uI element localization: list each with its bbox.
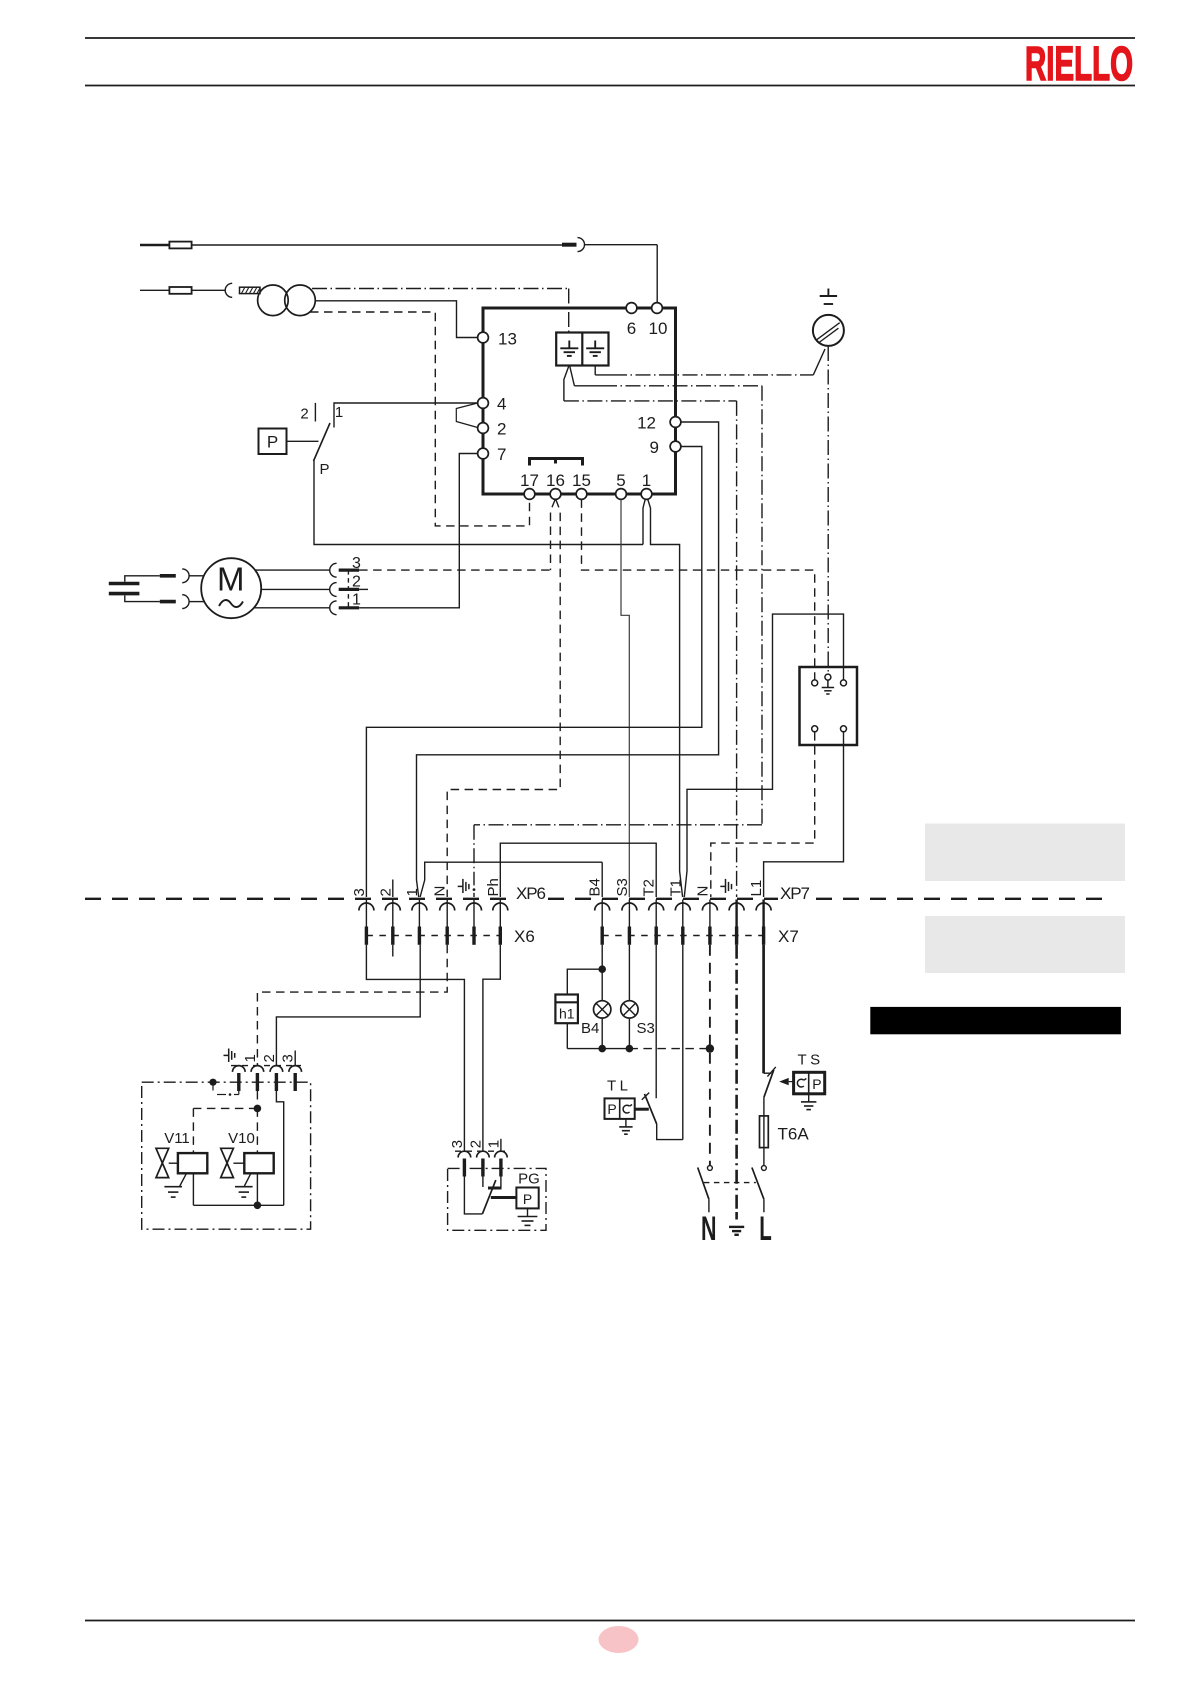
svg-text:7: 7	[497, 445, 506, 464]
TL earth	[625, 1119, 627, 1127]
capacitor wires	[125, 576, 160, 582]
svg-text:P: P	[319, 461, 329, 478]
motor tilde	[219, 600, 243, 607]
svg-text:PG: PG	[518, 1171, 540, 1188]
svg-text:Ph: Ph	[485, 878, 502, 896]
XP7 pin wires to X7	[602, 900, 763, 927]
XP6-1 right fork to XP7 B4	[420, 862, 602, 897]
svg-text:P: P	[812, 1076, 821, 1092]
PG fixed contact	[488, 1187, 502, 1190]
probe plug hook	[578, 238, 585, 252]
svg-text:10: 10	[649, 319, 668, 338]
switch gang link dashed	[704, 1182, 756, 1184]
svg-text:2: 2	[497, 420, 506, 439]
earth symbol right cell	[586, 341, 604, 356]
svg-text:TL: TL	[607, 1078, 632, 1095]
filter terminal top mid	[825, 674, 831, 680]
svg-text:13: 13	[498, 330, 517, 349]
XP6 pin N	[440, 903, 455, 910]
svg-text:B4: B4	[581, 1020, 599, 1037]
L pole terminal circle	[762, 1166, 767, 1171]
filter terminal top right	[841, 680, 847, 686]
earth symbol left cell	[560, 341, 578, 356]
lamp S3	[621, 1001, 638, 1018]
RC filter box	[800, 667, 858, 745]
page number blur	[599, 1626, 639, 1653]
pin 6	[626, 303, 637, 314]
svg-text:2: 2	[467, 1140, 484, 1148]
valve plug pin 1	[251, 1066, 264, 1072]
TL blade lead to T1	[657, 1124, 683, 1140]
HV hatched cable	[240, 287, 261, 293]
wire XP7 T1 down	[682, 945, 684, 1140]
valve pin2 net down	[276, 1091, 283, 1205]
svg-text:2: 2	[377, 888, 394, 896]
svg-text:XP7: XP7	[780, 884, 810, 903]
wire XP7 B4 down with junction	[601, 945, 603, 1001]
solenoid V10 valve body	[221, 1148, 234, 1177]
svg-text:N: N	[694, 886, 711, 897]
svg-text:V11: V11	[164, 1130, 190, 1147]
svg-text:1: 1	[485, 1140, 502, 1148]
XP6 pin wires to X6	[366, 900, 500, 927]
svg-text:M: M	[217, 561, 245, 598]
XP6 pin Ph	[493, 903, 508, 910]
PG pin1 lead	[500, 1177, 502, 1189]
shield bond squiggle	[209, 1079, 216, 1086]
wire screw terminal to filter earth	[827, 346, 829, 674]
wire transformer to pin 13	[315, 301, 477, 338]
TS contact tick	[767, 1067, 775, 1077]
X7 terminal strip	[602, 935, 763, 937]
wire filter bottom right to XP7 L1	[764, 732, 844, 897]
wire P box to switch	[287, 440, 319, 442]
pin 7	[478, 448, 489, 459]
solenoid V10 coil	[244, 1153, 273, 1173]
valve plug pin 3	[289, 1066, 302, 1072]
valve plug pin 3 stub	[294, 1051, 296, 1066]
svg-text:15: 15	[572, 471, 591, 490]
svg-text:P: P	[607, 1101, 616, 1117]
TS reset hook symbol	[797, 1079, 804, 1087]
XP7 pin B4	[595, 903, 610, 910]
X6-4 dashed net to valve plug pin 1	[257, 945, 447, 1066]
svg-text:N: N	[432, 886, 449, 897]
svg-text:1: 1	[335, 404, 343, 421]
svg-text:X7: X7	[778, 927, 799, 946]
svg-text:6: 6	[627, 319, 636, 338]
redacted black bar	[870, 1007, 1121, 1034]
PG plug pin 1	[495, 1151, 508, 1157]
valve plug earth label	[224, 1049, 235, 1063]
svg-text:T2: T2	[641, 879, 658, 897]
motor connector divider	[347, 570, 349, 608]
PG plug divider	[455, 1150, 510, 1152]
pin 1 fork left	[643, 499, 645, 544]
pin 10	[652, 303, 663, 314]
TS box	[794, 1072, 825, 1094]
pin 16 fork dashed left	[551, 499, 556, 570]
wire XP7 N dashed down	[709, 945, 711, 1166]
lamp B4	[594, 1001, 611, 1018]
TL actuator link	[635, 1108, 649, 1111]
internal earth double box	[556, 333, 608, 366]
svg-text:1: 1	[404, 888, 421, 896]
PG shield box	[448, 1168, 546, 1230]
jumper pins 4-2	[456, 403, 477, 428]
PG earth	[527, 1208, 529, 1216]
solenoid V11 earth	[180, 1173, 187, 1186]
PG plug pin 2	[477, 1151, 490, 1157]
pin 12 net to XP6-1	[417, 422, 719, 897]
L pole blade	[752, 1168, 764, 1200]
svg-text:S3: S3	[614, 878, 631, 896]
pin 17	[524, 489, 535, 500]
wire XP7 earth dash-dot down	[735, 945, 738, 1212]
motor pin 2 stub	[359, 588, 368, 590]
svg-text:2: 2	[261, 1054, 278, 1062]
XP6-Ph net to XP7 T2	[500, 843, 656, 897]
PG plug pin 3	[458, 1151, 471, 1157]
N pole blade	[698, 1168, 709, 1200]
wire transformer dashed to pin 17	[310, 312, 530, 526]
ignition electrode	[140, 289, 169, 291]
TL blade	[645, 1094, 657, 1124]
redacted note box upper	[925, 824, 1125, 882]
PG actuator link	[491, 1196, 517, 1199]
wire filter top right to XP7 T1	[684, 614, 843, 897]
PG pin2 stub	[482, 1177, 484, 1188]
ionisation probe electrode	[140, 244, 169, 246]
svg-text:V10: V10	[228, 1130, 255, 1147]
svg-text:P: P	[267, 433, 278, 452]
earth symbol above screw terminal	[820, 289, 837, 305]
X6-3 net to valve plug pin 2	[276, 945, 420, 1066]
branch to hour counter h1	[567, 969, 602, 994]
mains earth symbol	[729, 1227, 744, 1235]
svg-text:N: N	[701, 1210, 717, 1248]
earth box right cell to screw terminal	[594, 366, 596, 375]
svg-text:3: 3	[280, 1054, 297, 1062]
redacted note box lower	[925, 916, 1125, 973]
XP7 pin S3	[622, 903, 637, 910]
svg-text:1: 1	[352, 592, 361, 609]
svg-text:17: 17	[520, 471, 539, 490]
TL box	[605, 1098, 635, 1119]
ignition transformer TR primary circle	[258, 285, 289, 316]
svg-text:S3: S3	[637, 1020, 655, 1037]
pin 13	[478, 332, 489, 343]
screw earth terminal circle	[813, 315, 844, 346]
svg-text:P: P	[523, 1191, 532, 1207]
earth box fork left leg to XP7 earth	[564, 366, 569, 401]
contact 2 tick	[314, 403, 316, 422]
pin 1 fork right to XP7 T1	[648, 499, 683, 897]
TL reset hook symbol	[623, 1105, 630, 1113]
control box outline	[483, 308, 676, 494]
svg-text:3: 3	[449, 1140, 466, 1148]
svg-text:1: 1	[242, 1054, 259, 1062]
pin 1	[641, 489, 652, 500]
svg-text:2: 2	[352, 574, 361, 591]
footer rule	[85, 1620, 1135, 1622]
earth box fork right leg to XP6 earth	[570, 366, 575, 386]
XP6 pin 1	[412, 903, 427, 910]
svg-text:2: 2	[300, 406, 308, 423]
wire XP7 S3 down	[628, 945, 630, 1001]
capacitor plug hooks	[182, 569, 189, 583]
valve group shield box	[142, 1082, 311, 1229]
filter earth symbol	[822, 680, 834, 694]
lamp return bus	[566, 1023, 568, 1048]
pin 5	[616, 489, 627, 500]
wire XP7 L1 down to TS	[762, 945, 765, 1073]
X6-2 stub below	[392, 945, 394, 957]
TS fixed contact stub	[764, 1072, 772, 1074]
filter terminal bottom right	[841, 726, 847, 732]
wire filter bottom left dashed to XP7 N	[711, 732, 815, 897]
pin 5 wire to XP7 S3	[621, 499, 629, 897]
svg-text:3: 3	[351, 888, 368, 896]
header rule top	[85, 37, 1135, 39]
XP7 pin E	[729, 903, 744, 910]
svg-text:9: 9	[650, 438, 659, 457]
solenoid V11 coil	[178, 1153, 207, 1173]
svg-text:XP6: XP6	[516, 884, 546, 903]
svg-text:4: 4	[497, 395, 506, 414]
XP7 pin N	[702, 903, 717, 910]
PG switch wiring	[464, 1177, 482, 1214]
TS earth	[808, 1094, 810, 1102]
factory/installer divider dashed line	[85, 898, 1113, 900]
svg-text:T6A: T6A	[778, 1125, 810, 1144]
motor connector pins	[339, 570, 359, 608]
valve plug divider	[231, 1065, 301, 1067]
header rule bottom	[85, 85, 1135, 87]
wire motor pin 1 to pin 7	[359, 454, 478, 608]
pin 4	[478, 398, 489, 409]
PG switch blade	[482, 1180, 495, 1214]
valve pin1 dashed net with junction	[256, 1091, 258, 1108]
svg-text:RIELLO: RIELLO	[1025, 38, 1133, 91]
valve plug pin 2	[270, 1066, 283, 1072]
PG P box	[516, 1188, 538, 1209]
pin 16 fork dashed right to XP6 N	[447, 499, 560, 897]
motor output wires	[255, 569, 330, 571]
svg-text:L1: L1	[748, 880, 765, 897]
XP6 pin 2	[385, 903, 400, 910]
pin 15	[576, 489, 587, 500]
valve return bus	[192, 1173, 194, 1205]
svg-text:h1: h1	[559, 1006, 575, 1022]
wires hooks to motor	[189, 575, 204, 577]
TS blade	[764, 1070, 774, 1098]
TS blade lead to fuse	[763, 1097, 765, 1116]
hour counter h1	[555, 995, 578, 1024]
XP7 pin T1	[675, 903, 690, 910]
valve plug pin E	[233, 1066, 246, 1072]
photocell P box	[259, 429, 287, 455]
svg-text:1: 1	[642, 471, 651, 490]
filter terminal bottom left	[812, 726, 818, 732]
wire transformer shield dash-dot to earth block	[312, 289, 569, 333]
pin 2	[478, 423, 489, 434]
XP6 pin 3	[359, 903, 374, 910]
HV plug hook	[225, 283, 232, 297]
X6-6 net to PG pin 2	[483, 945, 500, 1151]
XP6-2 stub	[392, 880, 394, 898]
svg-text:B4: B4	[587, 878, 604, 896]
motor MV circle	[201, 558, 261, 618]
svg-text:16: 16	[546, 471, 565, 490]
svg-text:5: 5	[616, 471, 625, 490]
bracket over pins 17 16 15	[530, 459, 583, 466]
pin 9 net to XP6-3	[366, 447, 701, 898]
svg-text:T1: T1	[667, 879, 684, 897]
wire XP7 T2 down to TL	[655, 945, 657, 1098]
XP7 pin L1	[756, 903, 771, 910]
pin 15 dashed to filter	[582, 499, 815, 679]
capacitor C	[109, 584, 140, 594]
wire contact 1 to pin 4	[334, 403, 478, 428]
wire motor pin 3 dashed to pin 16	[359, 569, 550, 571]
solenoid V11 valve body	[156, 1148, 169, 1177]
XP6 pin E	[467, 903, 482, 910]
svg-text:TS: TS	[798, 1052, 824, 1069]
XP7 pin T2	[649, 903, 664, 910]
filter terminal top left	[812, 680, 818, 686]
wire switch P to pin 1	[314, 461, 643, 545]
pin 16	[550, 489, 561, 500]
svg-text:L: L	[759, 1210, 772, 1248]
ignition transformer TR secondary circle	[285, 285, 316, 316]
wire electrode to HV cable	[192, 289, 226, 291]
N pole terminal circle	[708, 1166, 713, 1171]
TS actuator arrow	[789, 1081, 794, 1083]
PG plug pin1 stub	[500, 1139, 502, 1151]
X6 terminal strip	[366, 935, 500, 937]
wire probe to terminal 10	[192, 244, 562, 246]
X6-1 net to PG pin 3	[366, 945, 464, 1151]
fuse T6A body	[760, 1116, 769, 1148]
solenoid V10 earth	[244, 1173, 251, 1186]
pin 9	[670, 441, 681, 452]
motor connector hooks	[330, 563, 337, 577]
fuse wire through	[763, 1116, 765, 1166]
svg-text:X6: X6	[514, 927, 535, 946]
TL contact tick	[642, 1093, 649, 1100]
pin 12	[670, 417, 681, 428]
svg-text:12: 12	[637, 414, 656, 433]
switch P blade	[314, 423, 331, 461]
